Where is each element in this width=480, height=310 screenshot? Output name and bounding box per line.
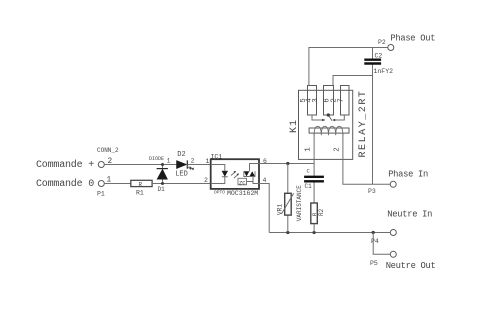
junction VR1 / pin6 wire [286,162,289,165]
svg-text:Phase In: Phase In [388,170,428,180]
wire contact1 top to Phase Out rail [309,48,388,86]
svg-text:OPTO: OPTO [214,190,225,196]
contact rect pins 2/7 [341,86,350,116]
internal triac [250,164,260,184]
svg-text:IC1: IC1 [211,154,223,161]
svg-text:1: 1 [305,147,313,152]
svg-text:MOC3162M: MOC3162M [227,190,258,197]
wire D2 to IC1 pin1 [187,164,210,166]
svg-text:P2: P2 [378,39,386,46]
svg-text:4: 4 [263,177,267,184]
LED D2 [167,151,195,179]
svg-text:1nFY2: 1nFY2 [374,68,394,75]
svg-text:VARISTANCE: VARISTANCE [296,185,303,221]
emission arrows [231,172,239,179]
svg-text:RELAY_2RT: RELAY_2RT [358,90,369,158]
diode D1 [149,156,168,193]
wire C2 riser down to Phase In [372,48,374,185]
svg-text:C: C [307,168,311,175]
svg-text:2: 2 [204,177,208,184]
resistor R1 [131,180,152,196]
svg-text:R1: R1 [136,190,144,197]
connector P1 CONN_2 [36,147,119,198]
wire P1 pin2 to LED D2 [104,164,176,166]
contact rect pins 3/6 [324,86,334,116]
junction VR1 / bottom wire [286,231,289,234]
svg-text:1: 1 [167,158,171,165]
svg-text:1: 1 [206,158,210,165]
svg-text:2: 2 [191,158,195,165]
wire R1 to IC1 pin2 [152,183,211,185]
wire contact2 top to C2 node [333,76,373,86]
svg-text:P5: P5 [370,260,378,267]
connector P3 Phase In [368,170,428,195]
svg-text:2: 2 [334,147,342,152]
wire coil pin2 down to Phase In [343,133,391,184]
connector P5 Neutre Out [370,251,436,271]
contact rect pins 5/4 [308,86,317,116]
svg-text:ZC: ZC [239,179,246,186]
svg-text:P4: P4 [371,238,379,245]
svg-text:C2: C2 [375,53,383,60]
svg-text:CONN_2: CONN_2 [97,147,119,154]
svg-text:VR1: VR1 [277,204,284,215]
wire coil pin1 down to C1 [313,133,315,159]
svg-text:3: 3 [312,98,320,102]
capacitor C2 [364,53,393,76]
wire P4 node down to P5 [373,233,390,255]
svg-text:DIODE: DIODE [149,156,164,162]
svg-text:P1: P1 [97,191,105,198]
svg-text:D1: D1 [158,186,166,193]
svg-text:R2: R2 [318,208,325,216]
optocoupler IC1 MOC3162M [204,154,267,198]
svg-text:K1: K1 [289,119,300,133]
svg-text:7: 7 [338,98,346,102]
svg-text:Neutre In: Neutre In [387,210,432,220]
wire IC1 pin6 to node [259,163,314,165]
connector P4 Neutre In [371,210,432,246]
svg-text:C1: C1 [305,183,313,190]
wire P1 pin1 to resistor R1 [104,183,130,185]
bottom wire to Neutre In [269,232,390,234]
svg-text:Neutre Out: Neutre Out [386,261,436,271]
ZC box [238,178,247,185]
svg-text:R: R [139,181,143,188]
varistor VR1 [277,164,304,233]
switch lever mechanism [312,115,344,120]
internal LED [211,165,228,184]
svg-text:P3: P3 [368,188,376,195]
relay K1 RELAY_2RT [289,86,369,160]
svg-text:Commande 0: Commande 0 [36,178,94,190]
svg-text:D2: D2 [177,151,185,159]
wire IC1 pin4 down [259,184,269,233]
svg-text:LED: LED [175,171,188,179]
junction R2 / bottom wire [313,231,316,234]
capacitor C1 [304,159,324,203]
coil [309,128,349,133]
svg-text:Commande +: Commande + [36,159,94,171]
junction P5 branch / bottom wire [372,231,375,234]
resistor R2 [311,203,325,233]
connector P2 Phase Out [378,34,435,51]
svg-text:Phase Out: Phase Out [390,34,435,44]
